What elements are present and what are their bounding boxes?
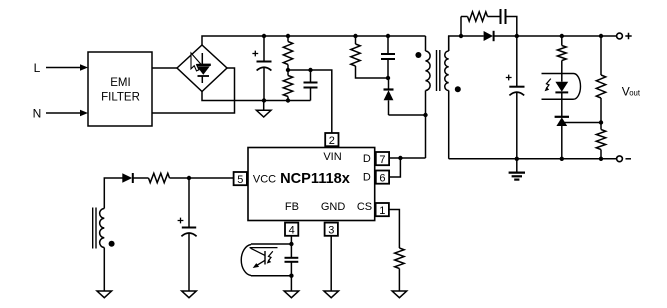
svg-text:1: 1 (379, 205, 385, 217)
ground IC GND (324, 291, 339, 298)
resistor R9 divider lower (596, 123, 605, 159)
pin 2 VIN (325, 133, 338, 147)
wire EMI out upper to bridge (152, 67, 177, 69)
capacitor C4 VCC electrolytic (178, 178, 197, 291)
transformer aux winding (100, 209, 105, 292)
capacitor C3 clamp (381, 36, 395, 78)
ground CS (392, 291, 407, 298)
svg-text:L: L (34, 61, 41, 75)
node output divider mid (599, 120, 603, 124)
transformer T1 primary phase dot (415, 52, 421, 58)
resistor R8 divider upper (596, 36, 605, 123)
pin 4 FB (285, 223, 298, 237)
ground primary DC- (256, 101, 271, 118)
svg-text:FILTER: FILTER (101, 92, 140, 104)
terminal output negative (617, 156, 631, 162)
wire EMI out lower to bridge (152, 68, 235, 113)
svg-text:out: out (629, 89, 641, 98)
node divider bottom (286, 98, 290, 102)
transformer T1 core (437, 50, 440, 91)
node clamp cap rail tap (386, 34, 390, 38)
svg-text:D: D (363, 153, 371, 165)
bridge rectifier BR1 (177, 45, 227, 92)
wire to VCC pin 5 (170, 177, 234, 179)
node snubber tap (459, 34, 463, 38)
resistor R1 divider upper (283, 42, 292, 65)
wire drain to pin 7 (389, 157, 426, 159)
capacitor C7 output electrolytic (506, 36, 525, 159)
opto Q1 light arrow (267, 251, 273, 263)
svg-text:VIN: VIN (323, 151, 341, 163)
ground VCC cap (182, 291, 197, 298)
wire DC- rail (202, 92, 311, 101)
node output cap bottom (515, 157, 519, 161)
wire DC+ top rail (202, 36, 426, 45)
resistor R7 opto series (557, 36, 566, 82)
LED D4 opto emitter (555, 82, 568, 117)
wire CS pin to sense resistor (389, 210, 399, 249)
svg-text:2: 2 (329, 135, 335, 147)
optocoupler transistor Q1 (241, 244, 291, 276)
EMI filter block (88, 52, 152, 126)
resistor R3 clamp (351, 44, 360, 66)
svg-text:GND: GND (321, 201, 346, 213)
node drain clamp junction (423, 113, 427, 117)
svg-text:EMI: EMI (110, 77, 130, 89)
op-amp U1 NCP1118x body (248, 148, 375, 221)
wire FB pin to node (290, 236, 292, 244)
aux winding phase dot (109, 241, 115, 247)
svg-text:5: 5 (237, 174, 243, 186)
pin 5 VCC (234, 172, 247, 186)
node opto branch top (560, 34, 564, 38)
pin 1 CS (376, 203, 389, 217)
resistor R2 divider lower (283, 76, 292, 97)
ground aux winding (97, 291, 112, 298)
capacitor C6 snubber (501, 9, 517, 36)
resistor R4 VCC series (149, 173, 170, 182)
node clamp rail tap (353, 34, 357, 38)
diode D2 clamp (384, 78, 394, 115)
svg-text:VCC: VCC (253, 173, 276, 185)
node bulk top (262, 34, 266, 38)
zener diode D5 (555, 117, 569, 159)
pin 7 D (376, 152, 389, 166)
svg-text:3: 3 (328, 225, 334, 237)
svg-text:N: N (33, 107, 42, 121)
opto LED light arrow (545, 79, 551, 92)
transformer T1 secondary winding (445, 36, 449, 159)
aux winding core (93, 208, 96, 249)
wire zener to divider mid (562, 122, 601, 124)
node divider mid (286, 68, 290, 72)
node opto branch bottom (560, 157, 564, 161)
node divider branch top (599, 34, 603, 38)
pin 6 D (376, 171, 389, 185)
svg-text:CS: CS (357, 201, 372, 213)
capacitor C5 FB (285, 244, 299, 291)
node D drain junction (398, 156, 402, 160)
resistor R5 current sense (395, 248, 404, 269)
wire GND pin to ground (330, 236, 332, 291)
diode D1 output rectifier (484, 31, 617, 41)
wire secondary top rail (449, 36, 484, 51)
diode D3 aux rectifier (122, 173, 148, 183)
svg-text:D: D (363, 172, 371, 184)
node VCC cap tap (187, 176, 191, 180)
capacitor C1 bulk electrolytic (252, 36, 271, 101)
optocoupler LED envelope (542, 74, 581, 100)
transformer T1 primary winding (426, 36, 431, 158)
node clamp RC junction (386, 76, 390, 80)
svg-text:7: 7 (379, 154, 385, 166)
capacitor C2 VIN filter (304, 70, 318, 101)
svg-text:FB: FB (285, 201, 299, 213)
wire clamp to drain node (389, 114, 426, 116)
cursor artifact (191, 53, 201, 71)
svg-text:6: 6 (379, 173, 385, 185)
node Vout label (622, 85, 641, 99)
wire N input arrow (46, 110, 88, 117)
pin 3 GND (325, 223, 338, 237)
node rectifier out (515, 34, 519, 38)
node divider top (286, 34, 290, 38)
svg-text:NCP1118x: NCP1118x (280, 171, 351, 187)
wire VIN node to pin 2 (288, 70, 332, 133)
ground FB (284, 291, 299, 298)
wire aux winding top (104, 178, 122, 209)
node C2 top (308, 68, 312, 72)
node FB top (289, 242, 293, 246)
resistor R6 snubber (461, 12, 501, 36)
wire L input arrow (46, 64, 88, 71)
terminal output positive (617, 33, 632, 39)
svg-text:4: 4 (289, 225, 295, 237)
node FB bottom (289, 274, 293, 278)
node bulk bottom (262, 98, 266, 102)
transformer T1 secondary phase dot (455, 86, 461, 92)
wire secondary bottom rail (449, 158, 617, 160)
wire pin 6 to drain node (389, 158, 400, 177)
node divider branch bottom (599, 157, 603, 161)
wire sense resistor to ground (398, 269, 400, 292)
earth ground secondary (509, 159, 525, 180)
